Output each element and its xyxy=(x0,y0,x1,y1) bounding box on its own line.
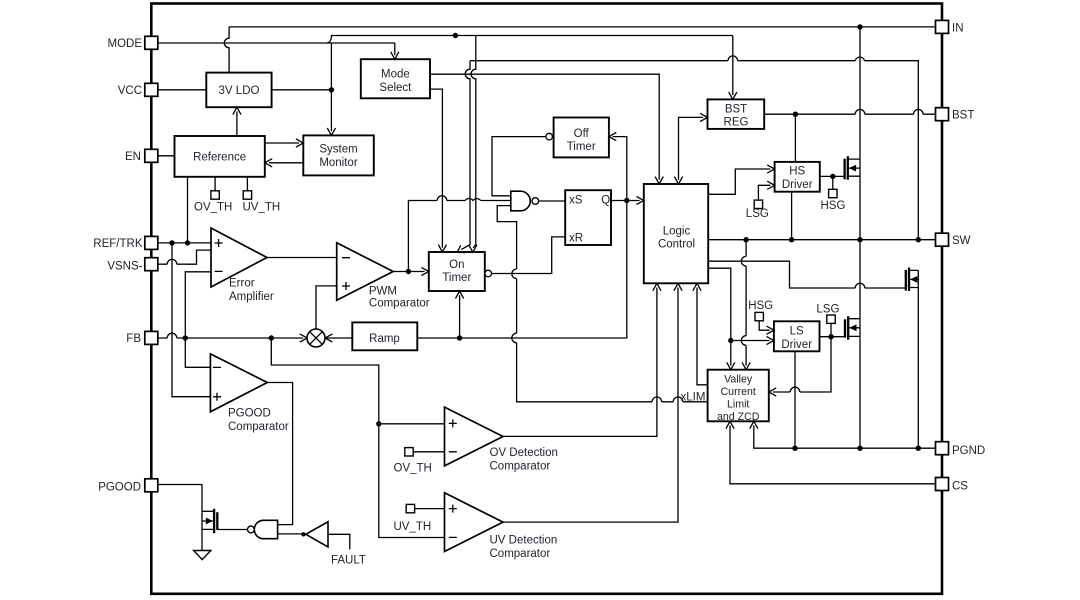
node SW / FET chain xyxy=(857,237,862,242)
wire IN to HS FET drain xyxy=(859,27,861,159)
svg-text:HS: HS xyxy=(789,165,805,177)
SR latch xyxy=(565,190,611,245)
wire xLIM column upper part to NAND input 3 xyxy=(497,206,516,334)
svg-text:3V LDO: 3V LDO xyxy=(219,85,260,97)
node FB to OV/UV branch xyxy=(269,335,274,340)
transistor HS FET xyxy=(845,156,860,240)
arrow into System Monitor top xyxy=(327,128,335,135)
terminal square LSG (bottom) xyxy=(827,315,835,323)
hop of xLIM column over ramp line xyxy=(512,333,517,343)
wire BST to HS Driver top xyxy=(794,114,796,162)
svg-text:PGND: PGND xyxy=(952,445,985,457)
svg-text:FB: FB xyxy=(126,333,141,345)
svg-text:HSG: HSG xyxy=(748,300,773,312)
arrow into BST REG top xyxy=(729,92,737,99)
hop of SW-sense over LS feed xyxy=(741,336,746,346)
node Q output junction xyxy=(624,198,629,203)
svg-text:Valley: Valley xyxy=(724,373,753,385)
svg-text:xS: xS xyxy=(569,195,583,207)
wire PGOOD pin to pulldown FET drain xyxy=(158,485,202,512)
wire multiplier output to PWM comparator + xyxy=(316,286,337,329)
wire HS Driver output to HS gate xyxy=(820,175,845,177)
bubble Off Timer output xyxy=(546,133,553,140)
svg-text:Ramp: Ramp xyxy=(369,333,400,345)
transistor PGOOD pulldown FET (mirrored) xyxy=(202,509,217,551)
comparator OV Detection Comparator xyxy=(445,407,504,466)
AND gate PGOOD pulldown (mirrored, bubble out left) xyxy=(254,520,277,538)
pin PGND xyxy=(936,442,949,455)
node SW / HS driver return xyxy=(789,237,794,242)
pin BST xyxy=(936,108,949,121)
terminal square LSG (top) xyxy=(754,200,762,208)
wire latch Q to Logic Control xyxy=(611,200,640,202)
node BST / HS Driver supply xyxy=(793,112,798,117)
svg-text:PGOOD: PGOOD xyxy=(228,408,271,420)
svg-text:On: On xyxy=(449,259,464,271)
svg-text:Amplifier: Amplifier xyxy=(229,291,274,303)
wire HS FET source to SW xyxy=(859,176,861,240)
svg-text:BST: BST xyxy=(952,110,974,122)
svg-text:PWM: PWM xyxy=(369,286,397,298)
wire Mode Select out to On Timer top xyxy=(430,89,442,248)
node IN / HS drain junction xyxy=(857,24,862,29)
arrow into HS Driver left (upper) xyxy=(767,165,774,173)
wire Reference to System Monitor xyxy=(265,142,299,144)
wire LSG stub to gate node xyxy=(830,323,832,336)
hop of BST line over IN drop xyxy=(855,109,865,114)
block On Timer xyxy=(429,252,485,291)
hop of xLIM line over OV column xyxy=(652,397,662,402)
arrow into Logic Control top (left) xyxy=(655,177,663,184)
hop of FB line xyxy=(167,333,177,338)
wire inverter output to gate input 2 xyxy=(278,533,302,535)
node HS gate / HSG xyxy=(830,174,835,179)
svg-text:Reference: Reference xyxy=(193,151,246,163)
inverter FAULT (pointing left) xyxy=(306,522,328,547)
wire SW sense long run (top) xyxy=(470,61,918,240)
comparator PGOOD Comparator xyxy=(210,354,267,412)
arrow into Mode Select top xyxy=(391,52,399,59)
block HS Driver xyxy=(775,162,820,192)
hop of gate line over FET chain xyxy=(855,283,865,288)
wire IN line (top) xyxy=(229,26,935,28)
arrow into 3V LDO bottom xyxy=(233,107,241,114)
arrow into On Timer top (mid, angled) xyxy=(458,245,465,252)
wire Reference to 3V LDO bottom xyxy=(236,111,238,136)
wire UV_TH threshold stub xyxy=(415,508,445,510)
arrow into Reference right xyxy=(265,159,272,167)
wire FET source to ground xyxy=(201,529,203,550)
node PGND / LS driver return xyxy=(792,446,797,451)
double hop of NAND line over SW/MODE drops xyxy=(465,198,480,200)
svg-text:Error: Error xyxy=(229,277,255,289)
wire SW line xyxy=(708,239,935,241)
node Ramp / On Timer bottom branch xyxy=(457,335,462,340)
arrow into valley block bottom (left) xyxy=(726,421,734,428)
wire PGOOD comparator output down to gate xyxy=(267,383,292,525)
arrow into BST REG left xyxy=(700,113,707,121)
svg-text:Off: Off xyxy=(574,128,590,140)
wire up into On Timer bottom xyxy=(459,295,461,338)
svg-text:LSG: LSG xyxy=(816,303,839,315)
wire VSNS- to error amp (hops REF/TRK drop) xyxy=(158,250,211,264)
wire Ramp output to multiplier xyxy=(325,337,352,339)
wire MODE net drop to On Timer (hops ModeSel line) xyxy=(471,36,476,248)
NAND gate (on-time set) xyxy=(511,191,531,211)
svg-text:and ZCD: and ZCD xyxy=(717,411,760,423)
svg-text:Comparator: Comparator xyxy=(228,421,289,433)
arrow into valley block top (left) xyxy=(727,362,735,369)
wire Off Timer inverted output to NAND input 1 xyxy=(492,137,546,196)
svg-text:Limit: Limit xyxy=(727,398,749,410)
arrow into LS Driver left (upper) xyxy=(767,326,774,334)
arrow into System Monitor left xyxy=(296,139,303,147)
arrow into Logic Control bottom (mid) xyxy=(674,283,682,290)
svg-text:HSG: HSG xyxy=(821,200,846,212)
node OV comparator feed xyxy=(376,421,381,426)
arrow into On Timer bottom xyxy=(456,291,464,298)
pin REF/TRK xyxy=(145,236,158,249)
wire OV_TH threshold stub xyxy=(413,451,444,453)
node PGND / sense FET source xyxy=(916,446,921,451)
arrow into Logic Control top (right) xyxy=(674,177,682,184)
arrow into On Timer left xyxy=(421,267,428,275)
node LS driver feed branch xyxy=(728,338,733,343)
pin EN xyxy=(145,149,158,162)
wire LS Driver bottom to PGND xyxy=(794,351,796,448)
wire BST REG left to Logic Control top xyxy=(679,117,704,179)
wire Logic Control bottom to valley left xyxy=(697,288,708,385)
svg-text:Driver: Driver xyxy=(781,339,812,351)
hop of SW run over IN drop xyxy=(855,57,864,61)
svg-text:Timer: Timer xyxy=(442,272,471,284)
arrow into Logic Control left xyxy=(636,196,643,204)
arrow into On Timer top (right) xyxy=(469,245,477,252)
wire HSG stub xyxy=(832,176,834,189)
svg-text:Q: Q xyxy=(601,195,610,207)
svg-text:CS: CS xyxy=(952,480,968,492)
svg-text:Current: Current xyxy=(721,386,756,398)
svg-text:Driver: Driver xyxy=(782,179,813,191)
svg-text:Mode: Mode xyxy=(381,68,410,80)
wire SW to LS FET drain xyxy=(859,240,861,319)
pin MODE xyxy=(145,36,158,49)
comparator UV Detection Comparator xyxy=(445,493,504,552)
wire gate bubble to FET gate xyxy=(217,529,247,531)
pin PGOOD xyxy=(145,479,158,492)
svg-text:Timer: Timer xyxy=(567,141,596,153)
op-amp Error Amplifier xyxy=(211,228,267,287)
wire FB down to OV/UV comparators xyxy=(271,338,444,538)
ground xyxy=(194,551,211,560)
hop of BST line over SW sense drop xyxy=(914,109,924,114)
hop of VSNS line xyxy=(167,259,177,264)
svg-text:LSG: LSG xyxy=(746,208,769,220)
wire Ramp right run to Q/OffTimer column xyxy=(417,201,627,339)
wire 3V LDO output xyxy=(272,89,332,91)
wire LS FET source to PGND xyxy=(859,336,861,448)
chip outer border xyxy=(151,4,942,594)
svg-text:UV_TH: UV_TH xyxy=(394,521,432,533)
svg-text:SW: SW xyxy=(952,235,971,247)
plus/minus PWM comparator xyxy=(342,258,350,290)
svg-text:OV_TH: OV_TH xyxy=(194,201,232,213)
arrow into HS Driver left (lower) xyxy=(767,181,774,189)
svg-text:UV_TH: UV_TH xyxy=(243,201,281,213)
wire LS Driver output to LS gate xyxy=(820,336,846,338)
svg-text:Monitor: Monitor xyxy=(319,157,358,169)
hop over LS driver return column xyxy=(790,387,800,392)
block LS Driver xyxy=(774,321,820,351)
hop of SW run over BST REG drop xyxy=(728,56,738,61)
node FB / error amp minus junction xyxy=(183,335,188,340)
block 3V LDO xyxy=(206,73,271,108)
block Ramp xyxy=(352,322,417,350)
svg-text:Comparator: Comparator xyxy=(490,460,551,472)
wire Reference OV_TH stub xyxy=(214,177,216,191)
svg-text:MODE: MODE xyxy=(108,38,143,50)
terminal square OV_TH (comparator) xyxy=(405,448,413,456)
arrow into Logic Control bottom (left) xyxy=(653,283,661,290)
wire Reference bottom to REF/TRK line xyxy=(187,177,189,243)
svg-text:REG: REG xyxy=(724,116,749,128)
svg-text:Select: Select xyxy=(379,82,412,94)
svg-text:REF/TRK: REF/TRK xyxy=(93,238,143,250)
block Mode Select xyxy=(361,59,430,98)
wire Mode Select top feed xyxy=(394,43,396,55)
wire SW sense down to valley block (hops two lines) xyxy=(745,240,747,366)
wire BST line xyxy=(764,113,935,115)
arrow into On Timer top (left) xyxy=(438,245,446,252)
svg-text:Control: Control xyxy=(658,238,695,250)
wire valley bottom to PGND line xyxy=(754,426,936,449)
svg-text:IN: IN xyxy=(952,22,964,34)
wire UV comparator output to Logic Control xyxy=(503,288,678,523)
wire HSG sense into LS Driver xyxy=(759,321,770,330)
wire xLIM column (hops ramp line and on-timer-out line) xyxy=(517,343,708,402)
wire Logic Control out to LS Driver / valley xyxy=(708,268,731,365)
wire On Timer output to latch xR xyxy=(492,237,566,274)
node SW / valley sense xyxy=(743,237,748,242)
wire Logic Control out to low FET gate xyxy=(708,261,906,288)
node PGND / LS FET source xyxy=(857,446,862,451)
node Reference/REFTRK junction xyxy=(185,240,190,245)
wire NAND output to latch xS xyxy=(539,200,566,202)
arrow into multiplier left xyxy=(300,334,307,342)
arrow into Logic Control bottom (right) xyxy=(693,283,701,290)
block System Monitor xyxy=(303,135,374,175)
wire Reference UV_TH stub xyxy=(246,177,248,191)
wire Q column to Off Timer right input xyxy=(613,137,627,201)
node 3V LDO output junction xyxy=(329,87,334,92)
pin VSNS- xyxy=(145,258,158,271)
multiplier (ramp modulator) xyxy=(307,329,325,347)
svg-text:Comparator: Comparator xyxy=(369,297,430,309)
block Off Timer xyxy=(554,118,609,158)
svg-text:Logic: Logic xyxy=(663,225,691,237)
wire LSG sense into HS Driver xyxy=(758,185,770,200)
node PWM output branch xyxy=(406,269,411,274)
wire PWM comparator output to On Timer xyxy=(393,271,425,273)
plus/minus error amp xyxy=(215,239,223,271)
node SW / sense column xyxy=(916,237,921,242)
wire HS Driver bottom to SW xyxy=(791,192,793,240)
transistor sense FET (SW node) xyxy=(906,268,919,449)
wire System Monitor to Reference xyxy=(269,162,303,164)
arrow into valley block top (right) xyxy=(742,362,750,369)
wire FAULT stub to inverter xyxy=(329,534,350,549)
pin SW xyxy=(936,233,949,246)
hop of NAND line over ModeSel drop xyxy=(437,196,447,201)
wire valley bottom to CS line xyxy=(730,426,936,484)
svg-text:LS: LS xyxy=(790,325,804,337)
terminal square UV_TH xyxy=(243,191,251,199)
svg-text:System: System xyxy=(319,144,357,156)
wire PWM output up and to NAND input 2 (hops three drops) xyxy=(408,201,510,272)
svg-text:xR: xR xyxy=(569,233,583,245)
node REF/TRK branch xyxy=(169,240,174,245)
wire SW sense drop to On Timer (hops ModeSel line) xyxy=(461,61,470,250)
terminal square HSG (bottom) xyxy=(755,312,763,320)
arrow into valley block right xyxy=(769,388,776,396)
wire Mode Select out to Logic Control top xyxy=(430,74,659,180)
svg-text:Comparator: Comparator xyxy=(490,548,551,560)
svg-text:OV_TH: OV_TH xyxy=(394,462,432,474)
pin VCC xyxy=(145,83,158,96)
block Valley Current Limit and ZCD xyxy=(708,370,769,422)
pin CS xyxy=(936,478,949,491)
svg-text:OV Detection: OV Detection xyxy=(490,447,558,459)
arrow into LS Driver left (lower) xyxy=(767,336,774,344)
svg-text:EN: EN xyxy=(125,151,141,163)
plus/minus PGOOD comparator xyxy=(213,367,221,400)
transistor LS FET xyxy=(845,240,860,449)
wire error amp output to PWM comparator xyxy=(267,257,337,259)
arrow into multiplier right xyxy=(325,334,332,342)
terminal square OV_TH xyxy=(211,191,219,199)
pin FB xyxy=(145,331,158,344)
terminal square UV_TH (comparator) xyxy=(406,504,414,512)
wire MODE pin line xyxy=(158,42,395,44)
node MODE upper-run dot xyxy=(453,33,458,38)
arrow into Off Timer right xyxy=(609,133,616,141)
arrow into valley block bottom (right) xyxy=(750,421,758,428)
svg-text:VCC: VCC xyxy=(118,85,142,97)
svg-text:UV Detection: UV Detection xyxy=(490,535,558,547)
pin IN xyxy=(936,20,949,33)
wire REF/TRK down to PGOOD comparator + xyxy=(172,243,210,397)
bubble On Timer output xyxy=(485,270,492,277)
hop of xLIM column over on-timer output xyxy=(512,269,517,279)
wire BST REG top feed (from MODE run) xyxy=(732,36,734,96)
node LS gate / LSG / ZCD xyxy=(828,334,833,339)
block BST REG xyxy=(708,99,765,128)
wire branch to LS Driver input xyxy=(731,340,770,342)
svg-text:PGOOD: PGOOD xyxy=(98,482,141,494)
wire gate node down to valley right input (hops LS driver return) xyxy=(773,337,831,392)
wire REF/TRK pin to error amp + xyxy=(158,242,211,244)
wire Logic Control out to HS Driver xyxy=(708,169,770,194)
plus/minus UV comparator xyxy=(449,505,457,538)
wire IN drop to 3V LDO (hops MODE line) xyxy=(224,27,229,73)
wire FB pin line (hops REF/TRK drop) xyxy=(158,337,303,339)
terminal square HSG (top) xyxy=(829,189,837,197)
wire EN to Reference xyxy=(158,155,175,157)
svg-text:BST: BST xyxy=(725,103,747,115)
wire MODE drop to System Monitor xyxy=(330,43,332,131)
block Logic Control xyxy=(644,184,708,283)
svg-text:FAULT: FAULT xyxy=(331,554,366,566)
wire MODE jog up to upper run xyxy=(327,36,733,44)
wire into OV comparator + xyxy=(379,423,445,425)
hop of SW-sense over gate line xyxy=(741,256,746,266)
block Reference xyxy=(175,136,265,177)
hop of xLIM line over UV column xyxy=(673,397,683,402)
wire error amp minus / FB / PGOOD comp minus xyxy=(185,272,211,368)
wire OV comparator output to Logic Control xyxy=(503,288,657,437)
wire VCC to 3V LDO xyxy=(158,89,207,91)
wire sense FET source to PGND xyxy=(917,288,919,449)
comparator PWM Comparator xyxy=(337,243,393,300)
svg-text:VSNS-: VSNS- xyxy=(107,261,142,273)
plus/minus OV comparator xyxy=(449,419,457,451)
svg-text:xLIM: xLIM xyxy=(681,392,706,404)
